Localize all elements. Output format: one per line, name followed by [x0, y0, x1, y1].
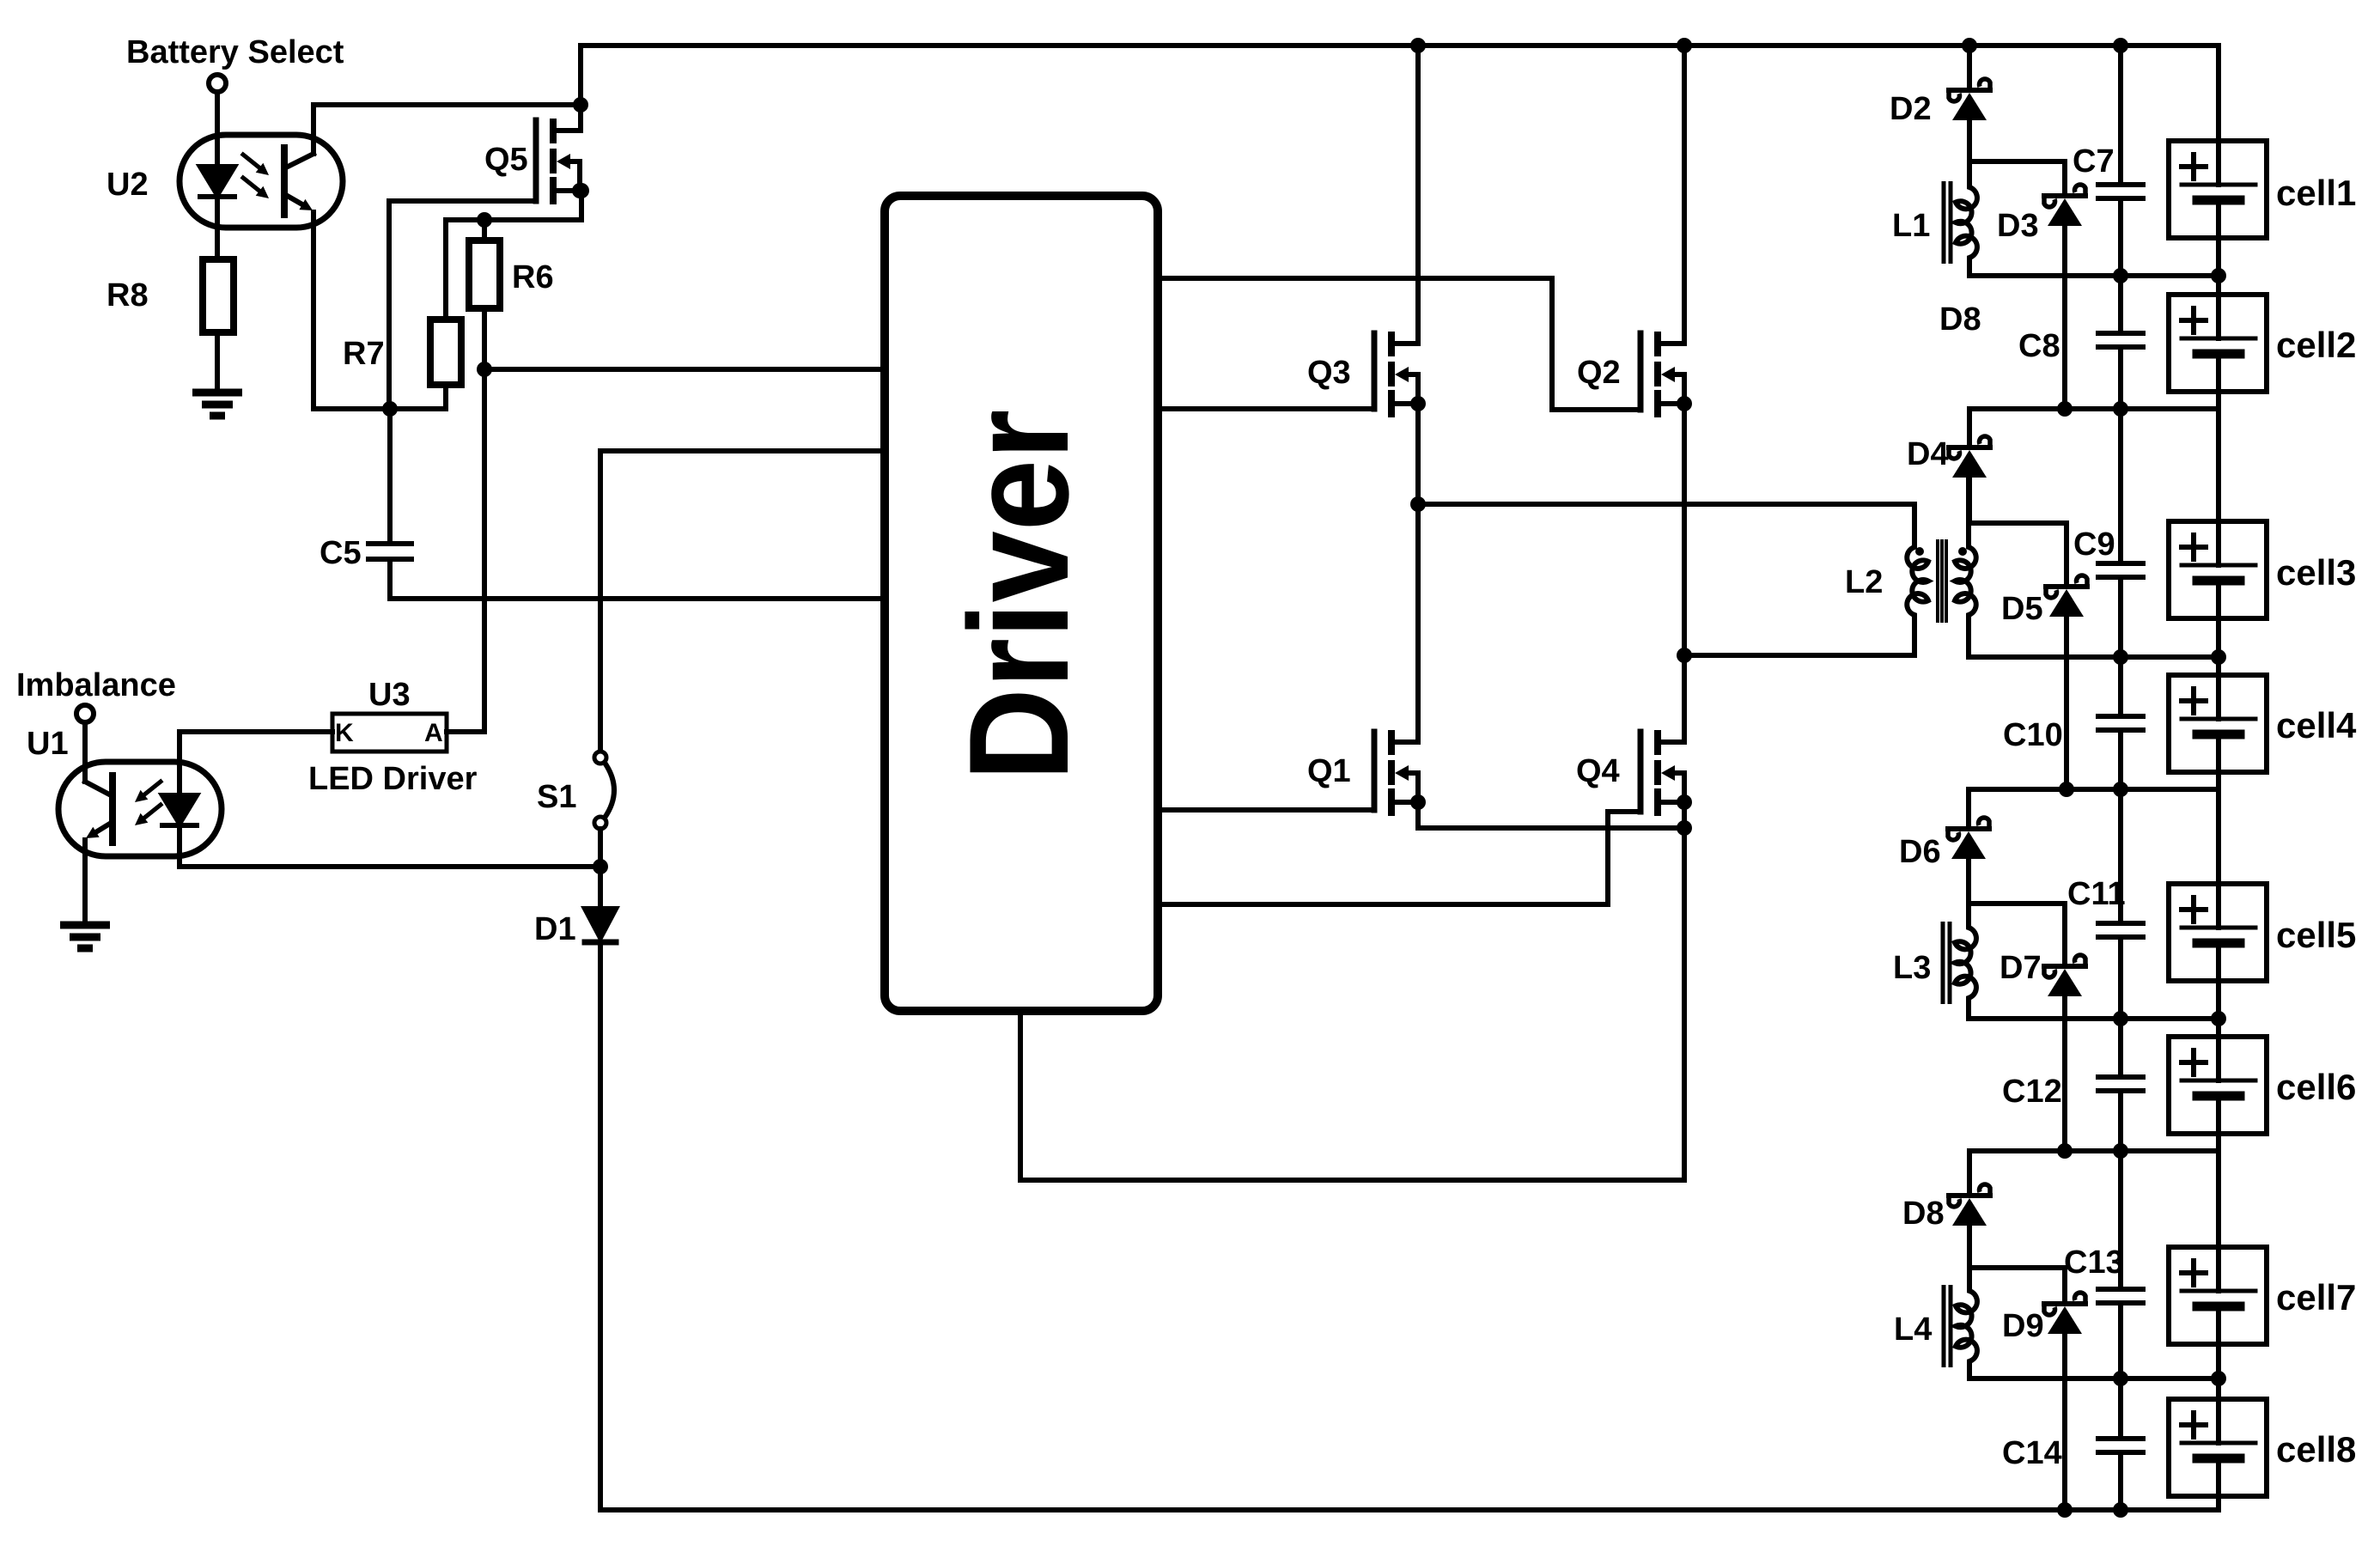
wire L2 secondary top to D4 [1966, 478, 1971, 542]
diode D9 [2044, 1293, 2085, 1334]
svg-text:D4: D4 [1907, 436, 1949, 472]
wire L4 top lead [1967, 1268, 1972, 1286]
wire D2 to node M1 [1967, 120, 1972, 161]
wire rail cell2-cell3 [1969, 406, 2217, 411]
wire D8 to node M4 [1967, 1226, 1972, 1268]
junction rail6 C11 [2113, 1011, 2128, 1026]
wire R6 node to U3 A [482, 369, 487, 732]
junction rail2 C7 [2113, 268, 2128, 283]
wire battery chain above cell1 [2216, 46, 2221, 185]
terminal Battery Select [209, 75, 226, 92]
wire C5 bottom to driver [390, 559, 885, 599]
wire battery chain above cell7 [2216, 1096, 2221, 1291]
svg-text:C12: C12 [2002, 1074, 2062, 1110]
wire Q5 source to R7/R6 [446, 191, 581, 220]
junction rail6 chain [2211, 1011, 2226, 1026]
svg-text:D8: D8 [1939, 301, 1981, 338]
junction rail4 chain [2211, 649, 2226, 665]
wire cap chain below C14 [2118, 1452, 2123, 1510]
svg-text:D1: D1 [534, 911, 576, 947]
U2 light arrows [243, 155, 269, 198]
wire cap chain above C8 [2118, 276, 2123, 333]
svg-text:cell2: cell2 [2276, 325, 2356, 365]
junction top rail C7 [2113, 38, 2128, 53]
wire L2 secondary bottom to rail4 [1969, 620, 2217, 657]
junction rail4 C9 [2113, 649, 2128, 665]
wire rail cell1-cell2 [1969, 273, 2219, 278]
junction S1-D1 node [593, 859, 608, 874]
svg-text:L2: L2 [1845, 564, 1883, 600]
resistor R7 [430, 320, 461, 385]
capacitor C12 [2098, 1077, 2143, 1091]
wire R7 top lead [443, 220, 448, 320]
svg-text:Imbalance: Imbalance [16, 667, 176, 703]
wire cap chain above C13 [2118, 1151, 2123, 1289]
wire Q2 drain riser [1682, 46, 1687, 344]
capacitor C5 [368, 544, 411, 559]
svg-text:cell8: cell8 [2276, 1429, 2356, 1470]
wire cap chain above C11 [2118, 789, 2123, 923]
wire cap chain below C7 [2118, 198, 2123, 276]
wire battery-select to U2 LED [215, 92, 220, 167]
svg-text:Q5: Q5 [484, 142, 528, 178]
junction C5 top node [382, 401, 398, 417]
junction rail8 C13 [2113, 1371, 2128, 1386]
wire L2 primary bottom to bridge right mid [1684, 620, 1914, 655]
diode D8 [1949, 1184, 1990, 1226]
junction rail7 D7 [2057, 1143, 2073, 1159]
resistor R6 [469, 240, 500, 308]
junction top rail Q2 [1677, 38, 1692, 53]
wire cap chain below C11 [2118, 937, 2123, 1019]
junction Q5 source [574, 183, 589, 198]
svg-text:C5: C5 [320, 535, 362, 571]
svg-text:cell4: cell4 [2276, 705, 2357, 746]
wire emitter rail [313, 406, 446, 411]
wire cap chain below C13 [2118, 1303, 2123, 1379]
junction rail5 C10 [2113, 782, 2128, 797]
ground below U1 [60, 925, 110, 948]
wire Q2 source to Q4 drain [1682, 404, 1687, 742]
wire L1 bottom lead [1967, 263, 1972, 276]
junction bottom rail C14 [2113, 1502, 2128, 1518]
IC U3 LED Driver box [332, 714, 447, 752]
svg-text:Battery Select: Battery Select [126, 34, 344, 70]
wire D9 anode to bottom rail [2062, 1334, 2067, 1510]
svg-text:C11: C11 [2067, 876, 2126, 912]
wire U3 A lead [447, 729, 484, 734]
wire bottom rail right part [600, 1507, 2219, 1512]
wire battery chain below cell8 [2216, 1458, 2221, 1510]
U1 light arrows [135, 782, 161, 825]
capacitor C14 [2098, 1439, 2143, 1452]
wire Q3 source to Q1 drain [1415, 404, 1421, 742]
wire L3 top lead [1966, 904, 1971, 922]
wire D5 anode to rail [2064, 617, 2069, 789]
resistor R8 [203, 259, 234, 332]
phase dot L2 secondary [1958, 547, 1967, 556]
inductor L1 winding [1956, 182, 1977, 263]
svg-text:cell5: cell5 [2276, 915, 2356, 955]
diode D3 [2044, 185, 2085, 226]
wire D8 top lead [1967, 1151, 1972, 1193]
wire battery chain above cell5 [2216, 734, 2221, 928]
wire rail cell7-cell8 [1969, 1376, 2219, 1381]
wire R6 bottom lead [482, 308, 487, 369]
svg-text:Driver: Driver [940, 410, 1098, 782]
wire Q3 drain riser [1415, 46, 1421, 344]
junction top rail D2 [1962, 38, 1977, 53]
svg-text:C13: C13 [2064, 1245, 2124, 1281]
svg-text:L3: L3 [1893, 950, 1931, 986]
IC Driver box [885, 196, 1158, 1011]
wire R7 bottom lead [443, 385, 448, 409]
svg-text:D5: D5 [2001, 591, 2043, 627]
diode D1 [585, 909, 616, 942]
wire top rail riser [578, 46, 583, 131]
svg-text:U2: U2 [107, 167, 149, 203]
U2 phototransistor [284, 105, 313, 215]
transistor Q3 [1374, 333, 1418, 414]
battery cell1 [2169, 141, 2267, 238]
junction L2 primary top tap [1410, 496, 1426, 512]
optocoupler U2 body [180, 135, 343, 228]
wire cap chain below C8 [2118, 347, 2123, 409]
wire node M1 to D3 [1969, 159, 2065, 164]
wire battery chain above cell8 [2216, 1306, 2221, 1443]
svg-text:L1: L1 [1892, 208, 1930, 244]
wire L4 bottom lead [1967, 1366, 1972, 1379]
svg-text:LED Driver: LED Driver [308, 761, 478, 797]
wire D6 top lead [1966, 789, 1971, 826]
svg-text:Q3: Q3 [1307, 355, 1351, 391]
svg-text:D2: D2 [1890, 91, 1932, 127]
transistor Q5 [536, 120, 580, 201]
svg-text:L4: L4 [1894, 1312, 1932, 1348]
svg-text:C8: C8 [2018, 328, 2060, 364]
wire driver pin3 to Q1 gate [1158, 807, 1374, 813]
wire S1 to D1 [598, 829, 603, 909]
junction rail3 C8 [2113, 401, 2128, 417]
transistor Q2 [1640, 333, 1684, 414]
junction rail8 chain [2211, 1371, 2226, 1386]
diode D2 [1949, 79, 1990, 120]
svg-text:D8: D8 [1902, 1196, 1945, 1232]
junction R6 bottom [477, 362, 492, 377]
wire L1 top lead [1967, 161, 1972, 182]
battery cell5 [2169, 884, 2267, 981]
battery cell6 [2169, 1037, 2267, 1134]
wire D4 to L2 secondary [1967, 478, 1972, 523]
battery cell8 [2169, 1399, 2267, 1496]
wire rail cell4-cell5 [1969, 787, 2217, 792]
wire D9 top lead [2062, 1268, 2067, 1301]
svg-text:R7: R7 [343, 336, 385, 372]
svg-text:R8: R8 [107, 277, 149, 313]
wire R6 top lead [482, 220, 487, 240]
svg-text:cell7: cell7 [2276, 1277, 2356, 1318]
wire D3 anode to rail [2062, 226, 2067, 409]
core of L3 [1943, 922, 1950, 1004]
junction Q5 drain node [573, 97, 588, 113]
capacitor C7 [2098, 185, 2143, 198]
svg-text:D9: D9 [2002, 1308, 2044, 1344]
wire D7 anode to rail [2062, 996, 2067, 1151]
battery cell7 [2169, 1247, 2267, 1344]
wire U1 LED anode to U3 K [180, 732, 332, 795]
wire U1 emitter to ground [82, 840, 88, 925]
wire node M3 to D7 [1969, 901, 2065, 906]
core of L2 [1938, 539, 1946, 623]
wire D5 top lead [2064, 523, 2069, 584]
core of L4 [1944, 1285, 1951, 1367]
svg-text:U1: U1 [27, 726, 69, 762]
ground below R8 [192, 393, 242, 416]
junction bottom rail D9 [2057, 1502, 2073, 1518]
svg-text:R6: R6 [512, 259, 554, 295]
transistor Q4 [1640, 732, 1684, 813]
wire R8 top [215, 197, 220, 259]
wire node M4 to D9 [1969, 1265, 2065, 1270]
wire D3 top lead [2062, 161, 2067, 196]
wire bridge left mid to L2 primary [1418, 504, 1914, 542]
wire rail cell5-cell6 [1969, 1016, 2219, 1021]
wire U2 collector to Q5 node [313, 102, 581, 107]
U1 phototransistor [85, 722, 113, 843]
capacitor C9 [2098, 563, 2143, 577]
inductor L2 primary winding [1907, 542, 1928, 620]
wire L3 bottom lead [1966, 1003, 1971, 1019]
svg-text:cell6: cell6 [2276, 1067, 2356, 1107]
U1 LED [162, 795, 197, 825]
wire D4 top lead [1967, 409, 1972, 445]
svg-text:C10: C10 [2003, 717, 2063, 753]
capacitor C13 [2098, 1289, 2143, 1303]
wire U1 LED cathode to S1 node [180, 825, 600, 867]
diode D5 [2046, 575, 2087, 617]
wire cap chain above C14 [2118, 1379, 2123, 1439]
wire R8 bottom [215, 332, 220, 393]
wire battery chain above cell2 [2216, 200, 2221, 338]
wire battery chain above cell4 [2216, 581, 2221, 719]
diode D6 [1948, 818, 1989, 859]
wire driver pin4 to Q4 gate [1158, 812, 1640, 904]
diode D4 [1949, 436, 1990, 478]
transistor Q1 [1374, 732, 1418, 813]
core of L1 [1944, 181, 1951, 264]
svg-text:C14: C14 [2002, 1435, 2062, 1471]
wire top rail [581, 43, 2219, 48]
wire driver pin1 to Q2 gate [1158, 278, 1640, 410]
svg-text:S1: S1 [537, 779, 576, 815]
wire U2 emitter down [311, 212, 316, 409]
wire cap chain below C9 [2118, 577, 2123, 657]
wire cap chain below C12 [2118, 1091, 2123, 1151]
svg-text:D6: D6 [1899, 834, 1941, 870]
battery cell2 [2169, 295, 2267, 392]
wire R6 node to driver [484, 367, 885, 372]
junction rail3 D3 [2057, 401, 2073, 417]
wire cap chain above C9 [2118, 409, 2123, 563]
svg-text:U3: U3 [368, 677, 411, 713]
wire cap chain below C10 [2118, 730, 2123, 789]
svg-text:cell1: cell1 [2276, 173, 2356, 213]
optocoupler U1 body [58, 762, 222, 856]
svg-text:C9: C9 [2073, 526, 2115, 563]
junction top rail Q3 [1410, 38, 1426, 53]
junction rail2 chain [2211, 268, 2226, 283]
wire Q1 source to Q4 node [1418, 801, 1684, 828]
wire D2 top lead [1967, 46, 1972, 88]
capacitor C8 [2098, 333, 2143, 347]
battery cell4 [2169, 675, 2267, 772]
capacitor C10 [2098, 716, 2143, 730]
inductor L4 winding [1956, 1286, 1977, 1366]
wire C5 top lead [387, 409, 393, 544]
inductor L3 winding [1955, 922, 1976, 1003]
terminal Imbalance [76, 705, 94, 722]
wire D6 to node M3 [1966, 859, 1971, 904]
diode D7 [2044, 955, 2085, 996]
junction Q4 source node [1677, 820, 1692, 836]
wire battery chain above cell6 [2216, 943, 2221, 1080]
battery cell3 [2169, 521, 2267, 618]
svg-text:Q1: Q1 [1307, 753, 1351, 789]
wire rail cell6-cell7 [1969, 1148, 2219, 1153]
wire driver to S1 [600, 451, 885, 752]
svg-text:K: K [335, 719, 354, 747]
wire battery chain above cell3 [2216, 354, 2221, 565]
switch S1 [594, 752, 614, 829]
junction rail5 D5 [2059, 782, 2074, 797]
wire L2 secondary node to D5 [1969, 520, 2067, 526]
svg-text:Q2: Q2 [1577, 355, 1621, 391]
U2 LED [200, 167, 234, 259]
junction R6 top [477, 212, 492, 228]
junction rail7 C12 [2113, 1143, 2128, 1159]
svg-text:C7: C7 [2073, 143, 2115, 180]
wire D1 to bottom rail [598, 942, 603, 1510]
wire cap chain above C10 [2118, 657, 2123, 716]
svg-text:D3: D3 [1997, 208, 2039, 244]
wire driver bottom pin to Q4 source [1020, 800, 1684, 1180]
junction L2 primary bottom tap [1677, 648, 1692, 663]
wire driver pin2 to Q3 gate [1158, 406, 1374, 411]
wire cap chain above C12 [2118, 1019, 2123, 1077]
svg-text:A: A [424, 719, 443, 747]
svg-text:cell3: cell3 [2276, 552, 2356, 593]
wire cap chain above C7 [2118, 46, 2123, 185]
wire Q5 gate to C5 node [389, 201, 536, 409]
capacitor C11 [2098, 923, 2143, 937]
svg-text:D7: D7 [2000, 950, 2042, 986]
phase dot L2 primary [1915, 547, 1924, 556]
inductor L2 secondary winding [1955, 542, 1976, 620]
svg-text:Q4: Q4 [1576, 753, 1620, 789]
wire D7 top lead [2062, 904, 2067, 964]
